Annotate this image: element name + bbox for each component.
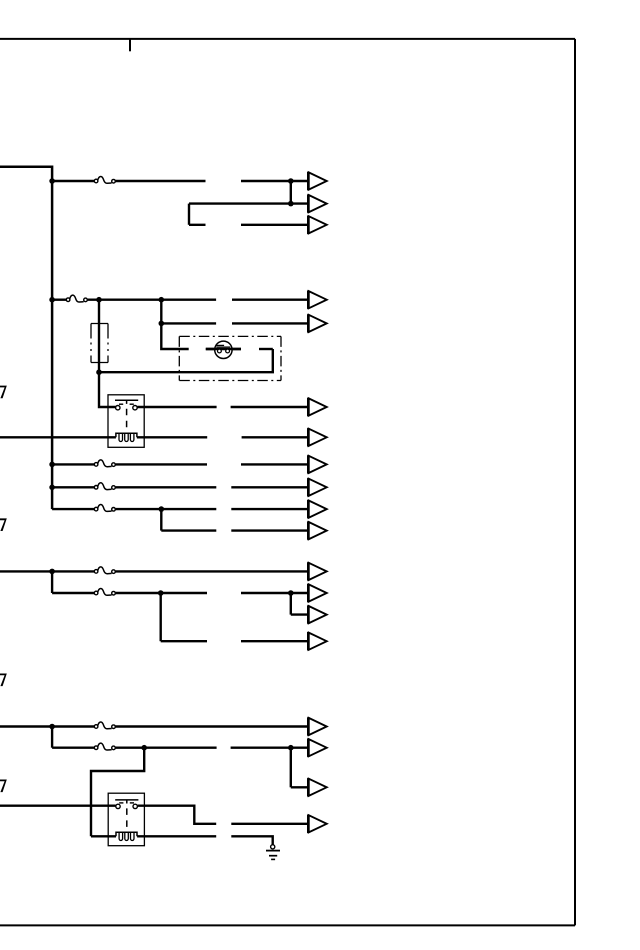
fuse F8 group5 row1 [94,722,115,729]
relay K2 case [108,793,144,846]
relay K1 contact terminal right [133,406,137,410]
wire: group5 switch row from left edge to relay K2 contact [0,805,116,807]
connector arrow group3 rowD [308,521,326,539]
junction motor return at x99 [96,369,102,375]
wire: group4 vertical at x160.7 [159,593,161,641]
junction group4 row2 x290.8 [288,590,294,596]
relay K2 coil [116,832,137,836]
wire: group1 vertical branch at x290.8 [290,181,292,204]
wire: group4 row1 fuse F6 to arrow [116,570,309,572]
junction group4 row2 x160.7 [158,590,164,596]
junction group2 row1 x99 [96,297,102,303]
wire: group4 row2 gap to arrow [241,592,308,594]
junction group3 rowC x161.3 [159,506,165,512]
connector arrow group1 row1 [308,172,326,190]
wire: group3 rowB gap to arrow [231,486,308,488]
junction group5 row1 at bus [49,724,55,730]
wire: group2 vertical at x161.3 [160,300,162,324]
label 7 (clipped at page edge) near y680 [0,674,7,687]
connector arrow group2 row3 [308,398,326,416]
connector arrow group1 row2 [308,194,326,212]
wire: group4 row3 stub to arrow [291,613,309,615]
wire: group1 row1 gap to arrow [241,180,308,182]
label 7 (clipped at page edge) near y786 [0,780,7,793]
connector box C1 (dashed) on x99 wire [91,324,108,363]
connector arrow group3 rowA [308,455,326,473]
component box (dash-dot) around motor M1 [179,336,281,380]
wire: group3 rowA gap to arrow [241,463,308,465]
fuse F6 group4 row1 [94,567,115,574]
relay K2 armature dashed link [126,808,128,831]
wire: group2 row2 gap to arrow [232,322,308,324]
connector arrow group2 row2 [308,314,326,332]
junction group5 row2 x290.8 [288,745,294,751]
wire: group2 row2 left segment [161,322,216,324]
wire: group3 rowD gap to arrow [231,529,308,531]
wire: group5 row4 gap to arrow [231,823,308,825]
wire: group5 branch down-left to relay K2 [91,748,144,837]
junction group2 row1 x161.3 [159,297,165,303]
wire: group3 rowC fuse F5 to gap [116,508,217,510]
relay K1 contact bar [115,399,138,401]
wire: group1 row1 bus to fuse F1 [52,180,94,182]
wire: group2 vertical at x99 through connector C1 [98,300,100,373]
junction group2 row2 x161.3 [159,321,165,327]
wire: group1 row3 gap to arrow [241,224,308,226]
junction group1 row2 x290.8 [288,201,294,207]
fuse F1 group1 row1 [94,176,115,183]
relay K1 contact terminal left [116,406,120,410]
motor M1 [206,341,241,358]
wire: group3 rowA bus to fuse F3 [52,463,94,465]
wire: group2 x161.3 down to motor row [161,323,188,349]
wire: group4 row4 gap to arrow [241,640,308,642]
border right [574,39,576,926]
wire: main feed from left edge into vertical bus [0,167,52,509]
wire: group2 row4 gap to arrow [242,436,309,438]
wire: group2 row1 gap to arrow [232,299,308,301]
wire: group1 row3 left stub [189,224,206,226]
connector arrow group4 row2 [308,584,326,602]
wire: group5 coil row gap to ground drop [231,836,272,845]
fuse F7 group4 row2 [94,588,115,595]
junction group3 rowA at bus [49,462,55,468]
border top [0,38,575,40]
wire: group5 coil row out of relay K2 to gap [137,835,216,837]
junction group5 row2 x144.2 [141,745,147,751]
wire: group4 row1 from left edge to fuse F6 [0,570,94,572]
connector arrow group4 row3 [308,605,326,623]
connector arrow group5 row4 [308,815,326,833]
relay K2 contact terminal right [133,804,137,808]
wire: group4 vertical at bus [51,571,53,593]
wire: group5 row3 stub to arrow [291,786,309,788]
wire: group5 row2 gap to arrow [231,747,309,749]
wire: group4 row2 bus to fuse F7 [52,592,94,594]
fuse F4 group3 rowB [94,483,115,490]
junction group2 row1 at bus [49,297,55,303]
relay K1 coil [116,433,137,437]
border tick mark [129,39,131,51]
wire: group5 row2 fuse F9 to gap [116,747,217,749]
wire: group5 vertical branch x290.8 [290,748,292,788]
junction group4 row1 at bus [49,569,55,575]
connector arrow group2 row4 [308,428,326,446]
wire: group1 vertical at x189 [188,204,190,225]
wire: group3 rowB fuse F4 to gap [116,486,217,488]
wire: group2 row1 bus to fuse F2 [52,299,66,301]
wire: group3 vertical at x161.3 [160,509,162,530]
wire: group5 row2 bus to fuse F9 [52,747,94,749]
connector arrow group4 row4 [308,632,326,650]
border bottom [0,924,575,926]
wire: group3 rowC gap to arrow [231,508,308,510]
relay K1 [108,395,144,448]
connector arrow group3 rowB [308,478,326,496]
connector arrow group4 row1 [308,562,326,580]
wire: group1 row2 to arrow [189,202,308,204]
wire: group3 rowA fuse F3 to gap [116,463,207,465]
wire: motor row through motor M1 [206,348,241,350]
wire: group5 vertical at bus [51,727,53,748]
fuse F9 group5 row2 [94,743,115,750]
wire: group2 row3 gap to arrow [231,406,309,408]
connector arrow group5 row1 [308,717,326,735]
wire: group1 row1 fuse F1 to connector gap [116,180,206,182]
wire: group5 relay K2 contact out and down to row4 [138,806,217,824]
relay K2 contact bar [115,799,138,801]
wire: group2 row4 from left edge to relay K1 coil [0,436,116,438]
wire: group3 rowC bus to fuse F5 [52,508,94,510]
junction group3 rowB at bus [49,485,55,491]
connector arrow group5 row2 [308,739,326,757]
wire: group2 row1 fuse F2 to connector gap [88,299,217,301]
wire: group4 row2 fuse F7 to gap [116,592,207,594]
wire: group2 row3 relay K1 contact to gap [137,406,216,408]
label 7 (clipped at page edge) near y392 [0,386,7,399]
relay K1 case [108,395,144,448]
wire: group5 row1 fuse F8 to arrow [116,725,309,727]
ground symbol [266,845,280,860]
connector arrow group2 row1 [308,291,326,309]
relay K1 armature dashed link [126,409,128,433]
wire: motor return loop down and back left [99,349,273,372]
fuse F3 group3 rowA [94,460,115,467]
wire: group5 coil row from x91 riser into relay K2 coil [91,835,116,837]
wire: group3 rowD left segment [161,529,216,531]
wire: group2 row4 relay K1 coil to gap [137,436,207,438]
wire: motor row right stub [259,348,273,350]
fuse F5 group3 rowC [94,505,115,512]
junction group1 row1 at bus [49,178,55,184]
wire: group4 row4 left segment [161,640,207,642]
junction group1 row1 x290.8 [288,178,294,184]
wire: group4 vertical branch x290.8 [290,593,292,615]
wire: group5 row1 from left edge to fuse F8 [0,725,94,727]
label 7 (clipped at page edge) near y525 [0,518,7,531]
fuse F2 group2 row1 [66,295,87,302]
relay K2 contact terminal left [116,804,120,808]
connector arrow group1 row3 [308,216,326,234]
connector arrow group5 row3 [308,778,326,796]
relay K2 [108,793,144,846]
wire: group3 rowB bus to fuse F4 [52,486,94,488]
wire: group2 x99 down to relay K1 contact [99,372,116,407]
connector arrow group3 rowC [308,500,326,518]
